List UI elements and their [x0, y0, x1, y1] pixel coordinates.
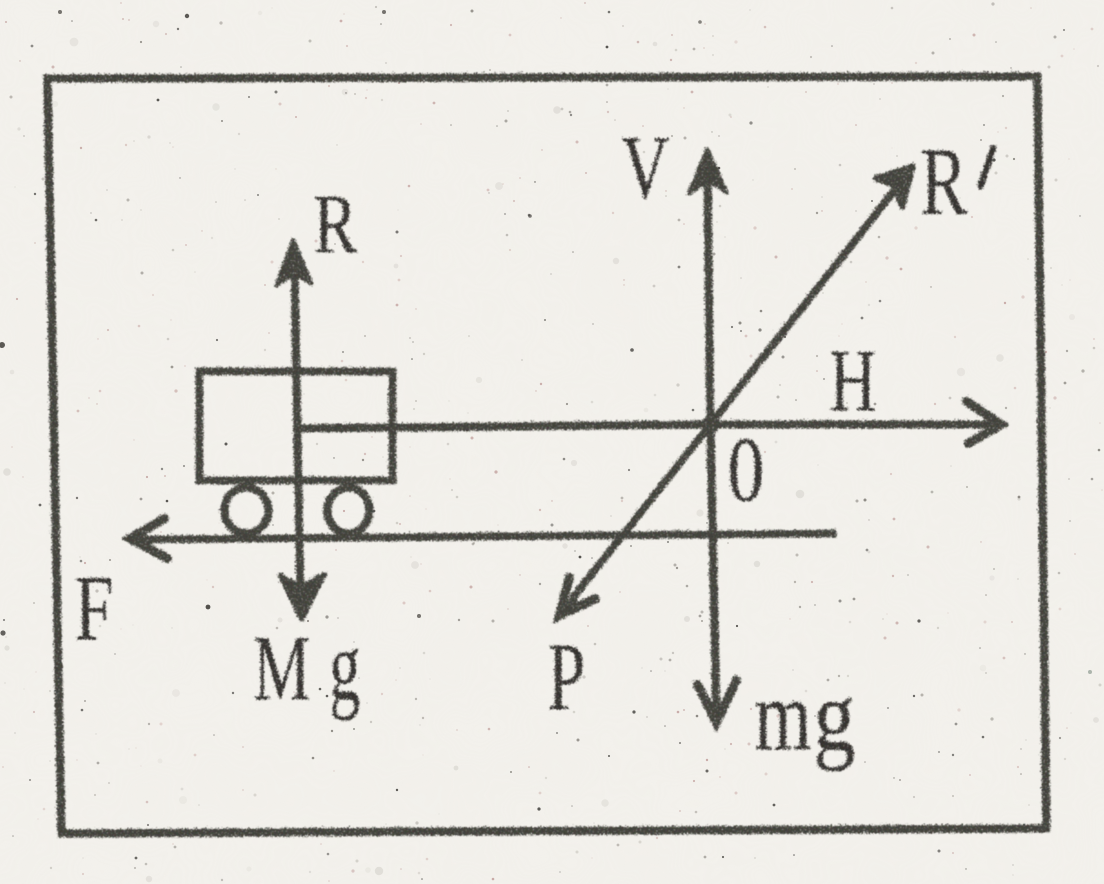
svg-text:H: H	[828, 331, 875, 429]
svg-text:P: P	[546, 622, 584, 730]
svg-text:R: R	[312, 176, 356, 270]
svg-text:g: g	[328, 609, 359, 720]
svg-text:R: R	[919, 126, 966, 233]
svg-text:m: m	[753, 658, 810, 770]
svg-text:V: V	[620, 117, 668, 216]
svg-text:g: g	[812, 658, 854, 770]
svg-text:F: F	[73, 556, 112, 659]
svg-text:M: M	[252, 616, 309, 719]
svg-text:0: 0	[726, 417, 763, 519]
